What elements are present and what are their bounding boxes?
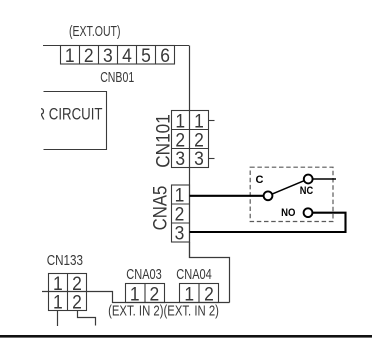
relay dashed box [250, 167, 333, 221]
svg-text:NC: NC [300, 185, 313, 197]
svg-text:NO: NO [281, 207, 296, 219]
svg-text:2: 2 [72, 291, 82, 313]
connector CNA04 [180, 284, 219, 303]
pin numbers CNA03 [130, 283, 159, 305]
wire CNA5 bottom elbow down to CNA04 [190, 242, 230, 303]
svg-text:2: 2 [84, 44, 94, 66]
tick pin3 CN101 [209, 158, 215, 160]
contact NC circle [304, 175, 313, 184]
svg-text:CN133: CN133 [47, 252, 83, 269]
wire NC stub [313, 178, 336, 180]
contact NO circle [304, 208, 313, 217]
connector CNB01 [43, 46, 189, 65]
wire CN133 mid line and baseline to CNA03/CNA04 [42, 292, 230, 303]
svg-text:5: 5 [141, 44, 151, 66]
svg-text:1: 1 [130, 283, 140, 305]
svg-text:3: 3 [194, 148, 204, 170]
connector CNA5 [172, 185, 190, 242]
svg-text:3: 3 [175, 222, 185, 244]
pin numbers CNA04 [184, 283, 213, 305]
svg-text:CNA04: CNA04 [176, 266, 212, 283]
svg-text:C: C [256, 174, 264, 186]
connector CN101 [172, 111, 209, 168]
svg-text:3: 3 [175, 148, 185, 170]
pin numbers CN133 [53, 272, 82, 312]
bottom border bar [0, 335, 372, 338]
svg-text:6: 6 [160, 44, 170, 66]
contact C circle [264, 191, 273, 200]
svg-text:R CIRCUIT: R CIRCUIT [36, 105, 103, 124]
svg-text:1: 1 [65, 44, 75, 66]
svg-text:(EXT.OUT): (EXT.OUT) [69, 23, 121, 40]
svg-text:CNA5: CNA5 [150, 186, 172, 231]
svg-text:CNB01: CNB01 [100, 69, 134, 86]
pin numbers CN101 [175, 110, 203, 169]
switch arm C to NC [272, 181, 304, 194]
wire CNA5 pin1 to C contact (bold) [190, 195, 264, 197]
svg-text:1: 1 [184, 283, 194, 305]
svg-text:2: 2 [204, 283, 214, 305]
box R CIRCUIT (clipped at left) [44, 92, 107, 150]
svg-text:CN101: CN101 [152, 114, 174, 168]
svg-text:(EXT. IN 2): (EXT. IN 2) [164, 303, 219, 320]
wire NO to CNA5 pin3 (bold) [190, 213, 346, 232]
wire main vertical spine [189, 46, 191, 259]
connector CNA03 [126, 284, 165, 303]
pin numbers CNA5 [175, 184, 185, 244]
svg-text:3: 3 [103, 44, 113, 66]
svg-text:4: 4 [122, 44, 132, 66]
pin numbers CNB01 1-6 [65, 44, 170, 66]
wire stub under CN133 pin2 [78, 311, 96, 326]
svg-text:2: 2 [150, 283, 160, 305]
connector CN133 [49, 274, 87, 311]
svg-text:(EXT. IN 2): (EXT. IN 2) [108, 303, 163, 320]
svg-text:CNA03: CNA03 [126, 266, 162, 283]
tick pin1 CN101 [209, 120, 215, 122]
wire stub under CN133 pin1 [57, 311, 59, 327]
svg-text:1: 1 [53, 291, 63, 313]
